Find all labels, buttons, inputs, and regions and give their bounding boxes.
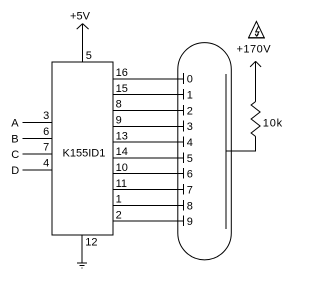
svg-text:+5V: +5V	[70, 10, 91, 22]
svg-text:C: C	[11, 149, 19, 161]
svg-text:7: 7	[187, 185, 193, 197]
power +5V arrow	[77, 24, 89, 30]
nixie anode electrode line	[225, 74, 227, 229]
wire input A	[23, 121, 53, 123]
svg-text:1: 1	[116, 194, 122, 206]
wire output pin 11 to cathode 7	[113, 189, 183, 191]
svg-text:9: 9	[116, 115, 122, 127]
tube pin tick 0	[182, 73, 184, 84]
tube pin tick 9	[182, 216, 184, 227]
svg-text:0: 0	[187, 74, 193, 86]
svg-text:10k: 10k	[263, 117, 283, 129]
svg-text:7: 7	[43, 142, 49, 154]
svg-text:5: 5	[86, 50, 92, 62]
svg-text:15: 15	[116, 83, 128, 95]
tube pin tick 1	[182, 89, 184, 100]
tube pin tick 3	[182, 121, 184, 132]
svg-text:2: 2	[116, 210, 122, 222]
svg-text:4: 4	[187, 137, 193, 149]
svg-text:1: 1	[187, 90, 193, 102]
wire output pin 14 to cathode 5	[113, 157, 183, 159]
nixie tube V1 envelope	[178, 43, 232, 260]
tube pin tick 5	[182, 152, 184, 163]
power +170V arrow	[250, 61, 261, 67]
tube pin tick 7	[182, 184, 184, 195]
resistor R1 10k	[251, 102, 260, 137]
high voltage warning symbol	[248, 21, 265, 38]
wire output pin 8 to cathode 2	[113, 109, 183, 111]
svg-text:13: 13	[116, 130, 128, 142]
svg-text:10: 10	[116, 162, 128, 174]
svg-text:K155ID1: K155ID1	[63, 147, 106, 159]
svg-text:6: 6	[43, 126, 49, 138]
wire output pin 16 to cathode 0	[113, 78, 183, 80]
svg-text:3: 3	[43, 110, 49, 122]
svg-text:A: A	[11, 117, 19, 129]
wire output pin 2 to cathode 9	[113, 220, 183, 222]
svg-text:6: 6	[187, 169, 193, 181]
svg-text:B: B	[11, 134, 18, 146]
svg-text:4: 4	[43, 157, 49, 169]
wire output pin 1 to cathode 8	[113, 204, 183, 206]
svg-text:11: 11	[116, 178, 127, 190]
svg-text:D: D	[11, 165, 19, 177]
svg-text:+170V: +170V	[237, 44, 272, 56]
tube pin tick 8	[182, 200, 184, 211]
tube pin tick 6	[182, 168, 184, 179]
svg-text:3: 3	[187, 121, 193, 133]
wire input B	[23, 138, 53, 140]
wire output pin 10 to cathode 6	[113, 173, 183, 175]
wire input C	[23, 153, 53, 155]
IC U1 K155ID1 box	[52, 62, 113, 235]
svg-text:14: 14	[116, 146, 128, 158]
wire anode to resistor	[226, 137, 256, 152]
wire input D	[23, 169, 53, 171]
svg-text:12: 12	[85, 237, 97, 249]
svg-text:2: 2	[187, 105, 193, 117]
tube pin tick 2	[182, 105, 184, 116]
wire IC pin 5 to +5V	[82, 24, 84, 62]
wire output pin 9 to cathode 3	[113, 125, 183, 127]
svg-text:16: 16	[116, 67, 128, 79]
svg-text:8: 8	[187, 200, 193, 212]
wire output pin 15 to cathode 1	[113, 94, 183, 96]
wire IC pin 12 to ground	[81, 235, 83, 263]
svg-text:5: 5	[187, 153, 193, 165]
ground	[77, 263, 87, 268]
wire resistor to +170V	[255, 61, 257, 101]
wire output pin 13 to cathode 4	[113, 141, 183, 143]
svg-text:9: 9	[187, 216, 193, 228]
svg-text:8: 8	[116, 99, 122, 111]
tube pin tick 4	[182, 137, 184, 148]
